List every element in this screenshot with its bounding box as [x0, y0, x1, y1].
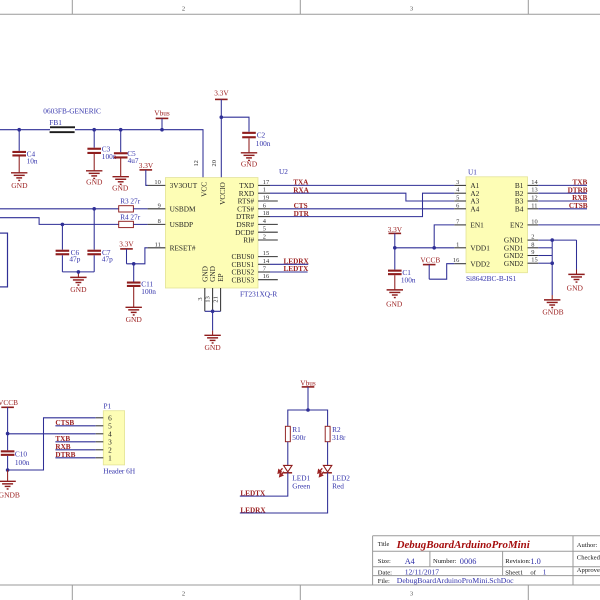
capacitor C11: [127, 264, 156, 308]
wire GND1 pin2 to ground: [538, 239, 576, 241]
wire R1 to LED1: [287, 442, 289, 466]
svg-text:EN1: EN1: [470, 221, 484, 230]
junction on Vbus rail at C5: [119, 128, 123, 132]
U2 pin 4 DSR#: [236, 218, 277, 229]
svg-text:VCC: VCC: [200, 182, 209, 197]
wire net TXB to P1 pin 3: [55, 441, 95, 443]
svg-text:Date:: Date:: [378, 569, 392, 576]
U1 pin 15 GND2: [504, 257, 538, 268]
wire C6/C7 commons: [62, 272, 94, 278]
ground GND for C3: [86, 171, 103, 187]
wire GND1 pin8 link: [538, 240, 552, 248]
svg-text:6: 6: [456, 202, 459, 209]
wire net RXA (U2 RXD to U1 A3): [270, 193, 454, 201]
op-amp U1 Si8642BC-B-IS1 body: [466, 167, 528, 282]
wire net DTR (U2 DTR# to U1 A2): [270, 193, 454, 216]
U2 pin 1 RXD: [239, 187, 270, 198]
wire ground drop: [576, 240, 578, 274]
P1 pin 6: [96, 413, 112, 422]
svg-text:CTS: CTS: [294, 202, 308, 210]
svg-text:FB1: FB1: [49, 118, 62, 127]
svg-text:11: 11: [155, 241, 161, 248]
junction C6-C7 ground: [77, 270, 81, 274]
junction VDD1 at C1: [393, 246, 397, 250]
P1 pin 2: [96, 445, 112, 454]
svg-text:FT231XQ-R: FT231XQ-R: [240, 290, 277, 299]
svg-text:of: of: [530, 569, 536, 576]
ground GND for C5: [112, 177, 129, 193]
resistor R1: [285, 425, 306, 442]
capacitor C5: [114, 130, 139, 177]
wire net CTS (U2 CTS# to U1 A4): [270, 208, 454, 210]
svg-text:File:: File:: [378, 578, 390, 585]
svg-text:GND: GND: [126, 315, 143, 324]
U1 pin 10 EN2: [510, 218, 538, 229]
U2 pin 20 VCCIO: [211, 160, 227, 205]
wire GND2 pin15 link: [538, 262, 552, 264]
svg-text:8: 8: [158, 218, 161, 225]
svg-text:4u7: 4u7: [128, 156, 139, 165]
svg-text:VCCB: VCCB: [0, 398, 18, 407]
svg-text:Revision:: Revision:: [505, 558, 530, 565]
svg-text:B4: B4: [515, 204, 524, 213]
svg-text:17: 17: [263, 179, 270, 186]
svg-text:27r: 27r: [130, 212, 140, 221]
U1 pin 3 A1: [454, 179, 479, 190]
ground GND for C11: [126, 307, 143, 324]
U2 pin 12 VCC: [193, 160, 209, 197]
P1 pin 3: [96, 437, 112, 446]
U1 pin 14 B1: [515, 179, 539, 190]
resistor R2: [325, 425, 346, 442]
junction VCCB at C10: [6, 432, 10, 436]
svg-text:RI#: RI#: [243, 236, 254, 245]
ferrite bead FB1: [43, 106, 101, 133]
svg-text:EP: EP: [216, 273, 225, 282]
junction GND1: [550, 238, 554, 242]
node TXB (P1): [55, 435, 70, 443]
node CTSB: [569, 202, 588, 210]
svg-text:VCCIO: VCCIO: [218, 182, 227, 205]
P1 pin 5: [96, 421, 112, 430]
U2 pin 17 TXD: [239, 179, 270, 190]
svg-text:8: 8: [531, 241, 534, 248]
svg-text:21: 21: [213, 296, 220, 302]
svg-text:2: 2: [182, 591, 185, 598]
U2 pin 9 USBDM: [148, 202, 196, 213]
svg-text:3: 3: [197, 297, 204, 300]
node LEDRX: [284, 257, 310, 265]
U2 pin 2 RI#: [243, 234, 278, 245]
svg-text:19: 19: [263, 195, 269, 202]
svg-text:14: 14: [531, 179, 538, 186]
U2 pin 19 RTS#: [238, 195, 278, 206]
svg-text:VDD2: VDD2: [470, 259, 490, 268]
svg-text:GND: GND: [86, 178, 103, 187]
svg-text:A4: A4: [405, 557, 416, 566]
U1 pin 8 GND1: [504, 241, 538, 252]
power symbol VCCB at P1: [0, 398, 18, 433]
U2 pin 6 CTS#: [237, 202, 270, 213]
wire Vbus rail from FB1 to U2 VCC pin: [75, 130, 203, 178]
svg-text:Size:: Size:: [378, 558, 391, 565]
node RXA: [293, 186, 309, 194]
ground GND for U2: [204, 335, 221, 352]
wire net RXB to P1 pin 2: [55, 449, 95, 451]
svg-text:GNDB: GNDB: [542, 307, 563, 316]
svg-text:9: 9: [531, 249, 534, 256]
svg-text:1: 1: [520, 569, 523, 576]
svg-text:2: 2: [531, 234, 534, 241]
wire 3.3V to RESET#: [127, 248, 148, 264]
svg-text:USBDM: USBDM: [170, 204, 196, 213]
junction at C11: [132, 262, 136, 266]
U1 pin 13 B2: [515, 187, 538, 198]
U2 pin 7 CBUS2: [231, 266, 270, 277]
svg-text:R4: R4: [120, 212, 129, 221]
wire EN2 (runs off sheet): [538, 224, 600, 226]
U2 pin 11 RESET#: [148, 241, 196, 252]
U1 pin 16 VDD2: [453, 257, 490, 268]
svg-text:Vbus: Vbus: [300, 378, 316, 387]
svg-text:P1: P1: [104, 401, 112, 410]
svg-text:CTSB: CTSB: [55, 419, 74, 427]
wire R3 to U2 USBDM pin 9: [133, 208, 147, 210]
svg-text:2: 2: [182, 5, 185, 12]
svg-text:27r: 27r: [130, 197, 140, 206]
ground GND for C4: [11, 173, 28, 190]
ground GND for C1: [386, 290, 403, 308]
svg-text:15: 15: [531, 257, 537, 264]
ground GND for C6/C7: [70, 277, 87, 294]
svg-text:VDD1: VDD1: [470, 243, 490, 252]
capacitor C3: [87, 130, 116, 171]
svg-text:LEDTX: LEDTX: [240, 489, 266, 497]
svg-text:GND: GND: [567, 283, 584, 292]
U2 pin 14 CBUS1: [231, 258, 270, 269]
svg-text:13: 13: [205, 296, 212, 302]
svg-text:DTRB: DTRB: [568, 186, 588, 194]
svg-text:TXB: TXB: [55, 435, 70, 443]
ground GNDB at P1: [0, 481, 20, 499]
svg-text:TXB: TXB: [573, 179, 588, 187]
U1 pin 1 VDD1: [454, 241, 490, 252]
node TXB: [573, 179, 588, 187]
ground GNDB for U1 GND2: [542, 300, 563, 317]
wire net DTRB to P1 pin 1: [55, 457, 95, 459]
svg-text:1: 1: [108, 453, 112, 462]
svg-text:CTSB: CTSB: [569, 202, 588, 210]
U1 pin 7 EN1: [454, 218, 484, 229]
svg-text:16: 16: [453, 257, 459, 264]
capacitor C10: [1, 434, 30, 470]
P1 pin 4: [96, 429, 112, 438]
svg-text:Author:: Author:: [577, 542, 598, 549]
svg-text:13: 13: [531, 187, 537, 194]
svg-text:5: 5: [263, 226, 266, 233]
junction U2 ground: [211, 310, 215, 314]
svg-text:VCCB: VCCB: [420, 256, 440, 265]
svg-text:0006: 0006: [460, 557, 477, 566]
svg-text:Green: Green: [292, 481, 310, 490]
svg-text:Number:: Number:: [433, 558, 457, 565]
capacitor C6: [56, 224, 81, 272]
U2 pin 8 USBDP: [148, 218, 194, 229]
wire 3V3OUT pin 10: [146, 184, 148, 186]
power symbol Vbus at LEDs: [300, 378, 316, 410]
svg-text:EN2: EN2: [510, 221, 524, 230]
U2 pin 10 3V3OUT: [148, 179, 198, 190]
svg-text:16: 16: [263, 273, 269, 280]
svg-text:100n: 100n: [141, 287, 156, 296]
wire net TXA (U2 TXD to U1 A1): [270, 184, 454, 186]
svg-text:Header 6H: Header 6H: [103, 466, 136, 475]
svg-text:Si8642BC-B-IS1: Si8642BC-B-IS1: [466, 274, 517, 283]
wire net CTSB (U1 B4): [538, 208, 587, 210]
resistor R4: [119, 212, 141, 227]
node DTR: [294, 210, 310, 218]
svg-text:DTR: DTR: [294, 210, 310, 218]
svg-text:10n: 10n: [27, 157, 38, 166]
svg-text:47p: 47p: [102, 255, 113, 264]
svg-text:GND: GND: [241, 160, 258, 169]
svg-text:20: 20: [211, 160, 218, 166]
ground GND for C2: [241, 153, 258, 169]
svg-text:10: 10: [154, 179, 160, 186]
svg-text:47p: 47p: [69, 255, 80, 264]
wire R2 to LED2: [327, 442, 329, 466]
U2 pin 15 CBUS0: [231, 250, 277, 261]
capacitor C2: [242, 131, 271, 153]
power symbol 3.3V at RESET pull-up: [119, 240, 134, 264]
svg-text:CBUS3: CBUS3: [231, 275, 254, 284]
wire GNDB drop at C10: [7, 470, 9, 481]
svg-text:1: 1: [456, 241, 459, 248]
resistor R3: [119, 197, 141, 212]
node LEDRX (bottom): [240, 506, 266, 514]
svg-text:3: 3: [456, 179, 459, 186]
power symbol 3.3V at U2 VCCIO: [214, 88, 229, 177]
ground GND for U1 GND1: [567, 274, 585, 292]
svg-text:14: 14: [263, 258, 270, 265]
svg-text:GND: GND: [11, 181, 28, 190]
LED LED1 Green: [278, 465, 310, 490]
node CTS: [294, 202, 308, 210]
wire EN1 to VDD1 net: [434, 225, 454, 248]
junction on Vbus rail at C4: [17, 128, 21, 132]
node TXA: [293, 179, 309, 187]
svg-text:RESET#: RESET#: [170, 243, 196, 252]
junction USBDM at C7: [92, 207, 96, 211]
node DTRB: [568, 186, 588, 194]
svg-text:RXA: RXA: [293, 186, 309, 194]
svg-text:Vbus: Vbus: [154, 109, 170, 118]
U1 pin 6 A4: [454, 202, 479, 213]
U1 pin 2 GND1: [504, 234, 538, 245]
junction VDD1 at EN1 branch: [432, 246, 436, 250]
svg-text:18: 18: [263, 210, 269, 217]
svg-text:RXB: RXB: [55, 443, 70, 451]
U2 pin 5 DCD#: [235, 226, 278, 237]
U2 pin 3 GND: [197, 266, 210, 311]
svg-text:3.3V: 3.3V: [214, 88, 229, 97]
U2 pin 18 DTR#: [236, 210, 270, 221]
junction GNDB at C10: [6, 468, 10, 472]
svg-text:GND: GND: [70, 285, 87, 294]
svg-text:3.3V: 3.3V: [119, 240, 134, 249]
junction at 3.3V / C2 branch: [220, 115, 224, 119]
wire GND2 pin9 to GNDB: [538, 248, 552, 295]
capacitor C7: [87, 209, 113, 272]
svg-text:DTRB: DTRB: [55, 451, 75, 459]
svg-text:Checked: Checked: [577, 555, 600, 562]
node CTSB (P1): [55, 419, 74, 427]
wire 3.3V branch to C2: [221, 117, 249, 132]
svg-text:DebugBoardArduinoProMini.SchDo: DebugBoardArduinoProMini.SchDoc: [397, 576, 514, 585]
svg-text:500r: 500r: [292, 433, 306, 442]
svg-text:3.3V: 3.3V: [139, 161, 154, 170]
wire net DTRB (U1 B2): [538, 192, 587, 194]
junction on Vbus rail at C3: [92, 128, 96, 132]
wire GNDB to P1 pin 6: [8, 418, 96, 470]
capacitor C4: [12, 130, 37, 173]
junction USBDP at C6: [61, 223, 65, 227]
svg-text:100n: 100n: [15, 458, 30, 467]
U1 pin 4 A2: [454, 187, 479, 198]
U1 pin 5 A3: [454, 195, 479, 206]
wire R4 to U2 USBDP pin 8: [133, 223, 147, 225]
node RXB (P1): [55, 443, 70, 451]
svg-text:100n: 100n: [401, 276, 416, 285]
svg-text:GND: GND: [112, 184, 129, 193]
U1 pin 11 B4: [515, 202, 538, 213]
node DTRB (P1): [55, 451, 75, 459]
svg-text:GNDB: GNDB: [0, 490, 20, 499]
svg-text:LEDRX: LEDRX: [240, 506, 266, 514]
junction GND2: [550, 261, 554, 265]
svg-text:Approved: Approved: [577, 567, 600, 574]
svg-text:10: 10: [531, 218, 537, 225]
wire LED1 to LEDTX: [240, 473, 288, 497]
U2 pin 16 CBUS3: [231, 273, 277, 284]
svg-text:6: 6: [263, 202, 266, 209]
wire U2 ground pins common: [205, 311, 221, 335]
wire net TXB (U1 B1): [538, 184, 587, 186]
svg-text:GND: GND: [204, 343, 221, 352]
svg-text:12: 12: [531, 195, 537, 202]
svg-text:1: 1: [543, 567, 547, 576]
wire net CTSB to P1 pin 5: [55, 425, 95, 427]
junction on Vbus rail at Vbus symbol: [160, 128, 164, 132]
svg-text:DebugBoardArduinoProMini: DebugBoardArduinoProMini: [396, 539, 530, 551]
svg-text:Red: Red: [332, 481, 344, 490]
P1 pin 1: [96, 453, 112, 462]
svg-text:R3: R3: [120, 197, 129, 206]
op-amp U2 FT231XQ-R body: [165, 167, 288, 298]
svg-text:U2: U2: [279, 167, 288, 176]
U2 pin 21 EP: [213, 273, 226, 311]
wire VDD1 net: [395, 247, 455, 249]
power symbol 3.3V at U1 VDD1: [388, 225, 403, 248]
svg-text:USBDP: USBDP: [170, 220, 194, 229]
svg-text:GND2: GND2: [504, 259, 524, 268]
svg-text:LEDTX: LEDTX: [284, 265, 310, 273]
LED LED2 Red: [318, 465, 350, 490]
svg-text:1: 1: [263, 187, 266, 194]
U1 pin 12 B3: [515, 195, 538, 206]
wire LED2 to LEDRX: [240, 473, 328, 513]
U1 pin 9 GND2: [504, 249, 538, 260]
node LEDTX: [284, 265, 310, 273]
svg-text:12/11/2017: 12/11/2017: [405, 567, 440, 576]
svg-text:100n: 100n: [256, 139, 271, 148]
svg-text:Title: Title: [378, 541, 390, 548]
power symbol Vbus (top rail): [154, 109, 170, 130]
svg-text:GND: GND: [386, 299, 403, 308]
connector P1 Header 6H body: [103, 401, 136, 475]
svg-text:0603FB-GENERIC: 0603FB-GENERIC: [43, 106, 101, 115]
wire net LEDTX (U2 CBUS2): [270, 271, 308, 273]
svg-text:U1: U1: [468, 167, 477, 176]
capacitor C1: [388, 248, 416, 290]
svg-text:9: 9: [158, 202, 161, 209]
svg-text:A4: A4: [470, 204, 479, 213]
wire GNDB drop: [551, 295, 553, 300]
svg-text:1.0: 1.0: [530, 557, 540, 566]
svg-text:5: 5: [456, 195, 459, 202]
connector J1 (USB, off-sheet left): [0, 233, 8, 287]
svg-text:3V3OUT: 3V3OUT: [170, 181, 198, 190]
wire Vbus rail from USB (left) to FB1: [0, 129, 50, 131]
svg-text:318r: 318r: [332, 433, 346, 442]
wire USBDP from USB to R4: [0, 218, 119, 225]
svg-text:12: 12: [193, 160, 200, 166]
node RXB: [572, 194, 587, 202]
svg-text:RXB: RXB: [572, 194, 587, 202]
junction LED rail at Vbus: [306, 408, 310, 412]
svg-text:15: 15: [263, 250, 269, 257]
node LEDTX (bottom): [240, 489, 266, 497]
svg-text:TXA: TXA: [293, 179, 309, 187]
wire USBDM from USB to R3: [0, 208, 119, 210]
svg-text:2: 2: [263, 234, 266, 241]
wire LED supply rail: [288, 410, 328, 426]
wire net RXB (U1 B3): [538, 200, 587, 202]
svg-text:11: 11: [531, 202, 537, 209]
U2 pin 13 GND: [205, 266, 218, 311]
power symbol 3.3V at U2 3V3OUT: [139, 161, 154, 185]
power symbol VCCB at U1 VDD2: [420, 256, 440, 280]
wire net LEDRX (U2 CBUS1): [270, 263, 308, 265]
wire VCCB to VDD2: [429, 264, 454, 280]
wire VCCB to P1 pin 4: [8, 433, 96, 435]
